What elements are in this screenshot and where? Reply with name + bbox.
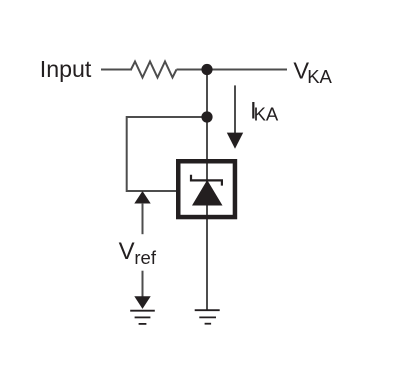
- wire feedback: node to reference pin: [127, 117, 207, 191]
- arrow Vref up: [134, 191, 150, 204]
- arrow IKA: [234, 85, 236, 134]
- svg-text:KA: KA: [307, 66, 332, 87]
- node K (junction at resistor / VKA): [201, 64, 212, 75]
- shunt regulator U1 box: [178, 161, 235, 217]
- svg-text:KA: KA: [254, 103, 279, 124]
- arrow Vref down: [142, 271, 144, 298]
- wire resistor to VKA terminal: [177, 69, 288, 71]
- svg-text:Input: Input: [40, 56, 92, 82]
- ground left (reference ground): [130, 311, 155, 324]
- U1 cathode bar: [191, 175, 222, 186]
- ground right (anode ground): [195, 310, 220, 324]
- svg-text:ref: ref: [134, 247, 156, 268]
- U1 anode triangle: [192, 180, 223, 206]
- resistor R1: [131, 62, 177, 78]
- svg-text:V: V: [119, 238, 135, 265]
- wire input to resistor: [101, 69, 132, 71]
- node feedback junction: [201, 111, 212, 122]
- wire cathode vertical: [206, 70, 208, 311]
